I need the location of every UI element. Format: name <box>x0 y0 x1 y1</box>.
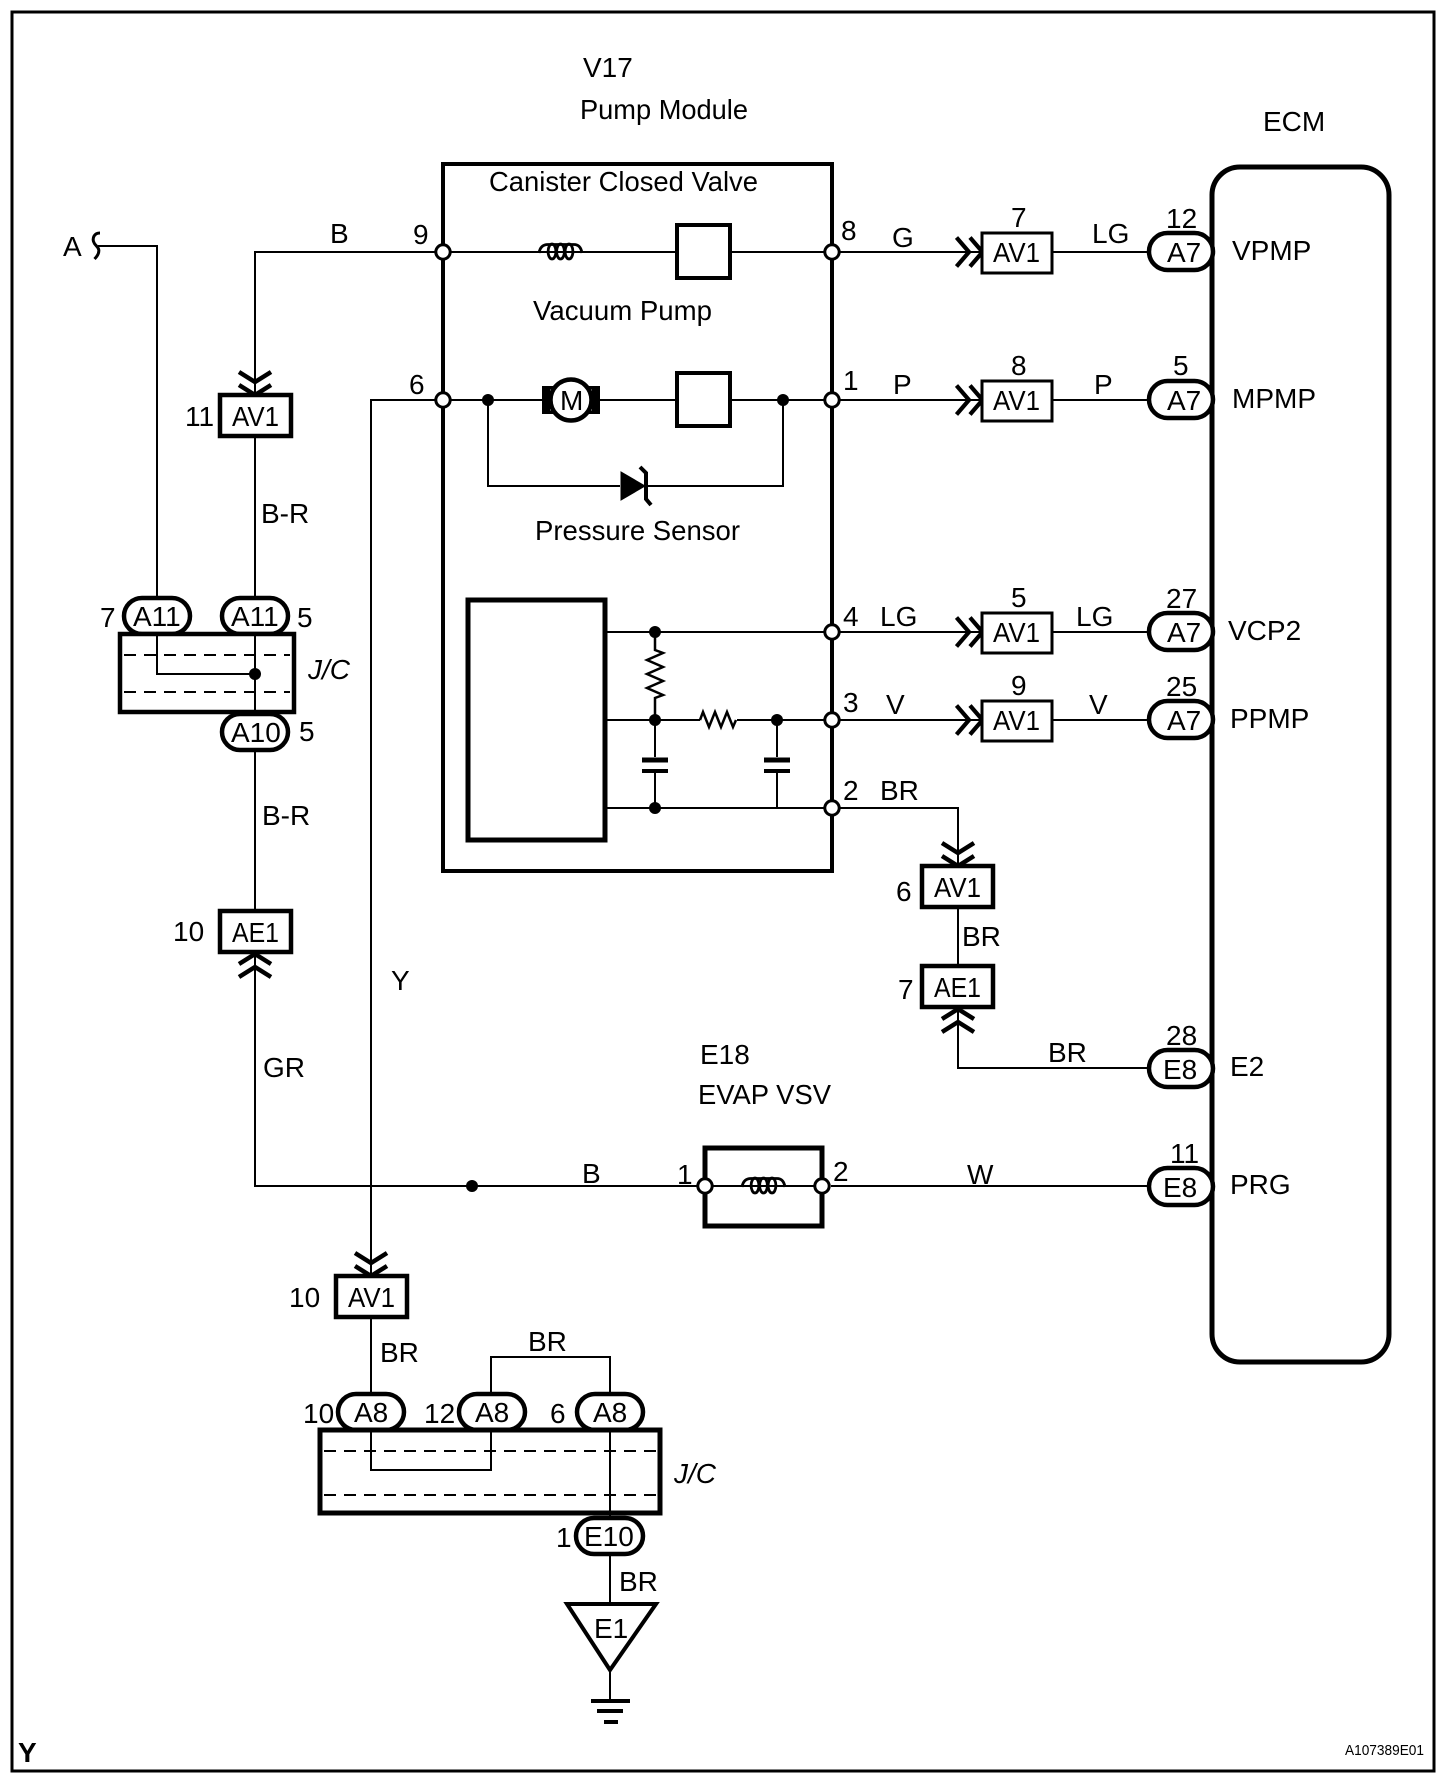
svg-text:1: 1 <box>843 365 859 396</box>
svg-text:ECM: ECM <box>1263 106 1325 137</box>
svg-text:E2: E2 <box>1230 1051 1264 1082</box>
wire W from VSV to ECM PRG <box>831 1185 1149 1187</box>
resistor vertical in sensor <box>647 632 663 720</box>
svg-text:EVAP VSV: EVAP VSV <box>698 1079 831 1110</box>
svg-text:10: 10 <box>173 916 204 947</box>
svg-text:2: 2 <box>833 1156 849 1187</box>
svg-text:A7: A7 <box>1167 385 1201 416</box>
wire inside J/C from A11 7 <box>157 634 255 674</box>
svg-text:5: 5 <box>1173 350 1189 381</box>
svg-text:P: P <box>1094 369 1113 400</box>
connector A8 pin 10 <box>338 1394 404 1430</box>
junction dot row3 right <box>771 714 783 726</box>
diode bypass wire <box>488 400 620 486</box>
svg-text:1: 1 <box>677 1159 693 1190</box>
connector AE1 pin 10 <box>220 911 291 952</box>
svg-text:AV1: AV1 <box>348 1282 395 1313</box>
connector AV1 pin 8 <box>982 381 1052 421</box>
wire through J/C from A11 5 to A10 <box>254 634 256 712</box>
svg-text:27: 27 <box>1166 583 1197 614</box>
svg-text:A11: A11 <box>133 601 181 632</box>
svg-text:Pump Module: Pump Module <box>580 94 748 125</box>
chevrons into AV1 pin 10 <box>355 1253 387 1276</box>
svg-text:AV1: AV1 <box>993 705 1040 736</box>
connector E10 pin 1 <box>576 1518 643 1554</box>
svg-text:5: 5 <box>297 602 313 633</box>
chevrons out of AE1 pin 10 <box>239 954 271 977</box>
wire Y from node 6 down to AV1 pin 10 <box>371 400 443 1277</box>
svg-text:W: W <box>967 1159 994 1190</box>
connector E8 pin 11 <box>1149 1168 1213 1205</box>
svg-text:V17: V17 <box>583 52 633 83</box>
junction block J/C left <box>120 634 294 712</box>
svg-text:25: 25 <box>1166 671 1197 702</box>
wire BR from AV1 10 to A8 pin 10 <box>370 1315 372 1395</box>
junction dot row2 <box>649 802 661 814</box>
node 2 circle VSV <box>815 1179 829 1193</box>
connector A7 pin 5 <box>1149 381 1213 418</box>
svg-text:6: 6 <box>409 369 425 400</box>
sensor output wire row 4 <box>605 631 832 633</box>
coil of EVAP VSV <box>742 1178 785 1193</box>
svg-text:P: P <box>893 369 912 400</box>
svg-text:12: 12 <box>1166 203 1197 234</box>
connector A7 pin 25 <box>1149 701 1213 738</box>
svg-text:A8: A8 <box>475 1397 509 1428</box>
svg-text:BR: BR <box>619 1566 658 1597</box>
sensor ground wire row 2 <box>605 807 832 809</box>
junction dot inside J/C <box>249 668 261 680</box>
connector AV1 pin 5 <box>982 613 1052 653</box>
connector AV1 pin 11 <box>220 395 291 436</box>
node 2 circle <box>825 801 839 815</box>
chevrons into AV1 pin 9 <box>957 706 983 735</box>
node 4 circle <box>825 625 839 639</box>
motor M of vacuum pump <box>542 386 554 414</box>
svg-text:B-R: B-R <box>261 498 309 529</box>
svg-text:Y: Y <box>18 1737 37 1768</box>
wire LG row 4 to AV1 5 <box>832 631 986 633</box>
svg-text:V: V <box>886 689 905 720</box>
svg-text:5: 5 <box>1011 582 1027 613</box>
junction dot left of motor <box>482 394 494 406</box>
svg-text:7: 7 <box>1011 202 1027 233</box>
connector A10 pin 5 <box>222 714 288 750</box>
resistor horizontal in sensor <box>700 712 736 727</box>
wire P row 1 to AV1 8 <box>832 399 986 401</box>
junction dot right of pump square <box>777 394 789 406</box>
svg-text:10: 10 <box>303 1398 334 1429</box>
svg-text:12: 12 <box>424 1398 455 1429</box>
svg-text:A107389E01: A107389E01 <box>1345 1742 1424 1759</box>
svg-text:6: 6 <box>896 876 912 907</box>
svg-text:J/C: J/C <box>307 654 351 685</box>
svg-text:BR: BR <box>880 775 919 806</box>
svg-text:VCP2: VCP2 <box>1228 615 1301 646</box>
wire V row 3 to AV1 9 <box>832 719 986 721</box>
connector A11 pin 7 <box>124 598 190 634</box>
wire canister closed valve row <box>443 251 677 253</box>
svg-text:A8: A8 <box>354 1397 388 1428</box>
svg-text:8: 8 <box>841 215 857 246</box>
chevrons into AV1 pin 8 <box>957 386 983 415</box>
svg-text:11: 11 <box>185 401 214 432</box>
chevrons into AV1 pin 7 <box>957 238 983 267</box>
svg-text:AV1: AV1 <box>232 401 279 432</box>
diode (zener) <box>621 472 645 500</box>
svg-text:LG: LG <box>880 601 917 632</box>
svg-text:E18: E18 <box>700 1039 750 1070</box>
valve body square <box>677 225 730 278</box>
wire from A to junction block A11 pin 7 <box>98 246 157 599</box>
wire BR from AV1 6 to AE1 7 <box>957 907 959 966</box>
svg-text:1: 1 <box>556 1522 572 1553</box>
svg-text:Canister Closed Valve: Canister Closed Valve <box>489 166 758 197</box>
svg-text:M: M <box>560 385 583 416</box>
connector A8 pin 12 <box>459 1394 525 1430</box>
junction block J/C bottom <box>320 1430 660 1513</box>
coil of canister closed valve <box>539 244 582 259</box>
svg-text:AV1: AV1 <box>993 617 1040 648</box>
svg-text:5: 5 <box>299 716 315 747</box>
svg-text:V: V <box>1089 689 1108 720</box>
capacitor 1 <box>654 720 656 757</box>
ground triangle E1 <box>567 1604 656 1670</box>
svg-text:AE1: AE1 <box>232 917 279 948</box>
chevrons out of AE1 pin 7 <box>942 1009 974 1032</box>
ground symbol <box>591 1699 630 1703</box>
ECM box <box>1212 167 1389 1362</box>
svg-text:E10: E10 <box>584 1521 634 1552</box>
svg-text:A10: A10 <box>231 717 281 748</box>
wire BR from E10 to E1 <box>609 1554 611 1604</box>
svg-text:7: 7 <box>100 602 116 633</box>
svg-text:7: 7 <box>898 974 914 1005</box>
svg-text:J/C: J/C <box>673 1458 717 1489</box>
svg-text:PPMP: PPMP <box>1230 703 1309 734</box>
node 1 circle <box>825 393 839 407</box>
svg-text:VPMP: VPMP <box>1232 235 1311 266</box>
svg-text:Vacuum Pump: Vacuum Pump <box>533 295 712 326</box>
svg-text:G: G <box>892 222 914 253</box>
svg-text:AV1: AV1 <box>993 385 1040 416</box>
node 6 circle <box>436 393 450 407</box>
chevrons into AV1 pin 11 <box>239 372 271 395</box>
wire GR from AE1 down and right to EVAP VSV pin 1 <box>255 950 705 1186</box>
svg-text:A7: A7 <box>1167 237 1201 268</box>
svg-text:B: B <box>582 1158 601 1189</box>
svg-text:A: A <box>63 231 82 262</box>
wire BR bridge between A8 12 and A8 6 <box>491 1357 610 1394</box>
svg-text:A11: A11 <box>231 601 279 632</box>
connector AV1 pin 7 <box>982 233 1052 273</box>
svg-text:E1: E1 <box>594 1613 628 1644</box>
svg-text:E8: E8 <box>1163 1054 1197 1085</box>
wire BR from AE1 7 to ECM E2 <box>958 1007 1149 1068</box>
svg-text:MPMP: MPMP <box>1232 383 1316 414</box>
svg-text:3: 3 <box>843 687 859 718</box>
svg-text:BR: BR <box>1048 1037 1087 1068</box>
connector A7 pin 12 <box>1149 233 1213 270</box>
svg-text:Y: Y <box>391 965 410 996</box>
connector AE1 pin 7 <box>922 966 993 1007</box>
connector AV1 pin 6 <box>922 866 993 907</box>
sensor output wire row 3 <box>605 719 700 721</box>
EVAP VSV box <box>705 1148 822 1226</box>
connector A11 pin 5 <box>222 598 288 634</box>
splice dot on B wire <box>466 1180 478 1192</box>
svg-text:Pressure Sensor: Pressure Sensor <box>535 515 740 546</box>
connector A8 pin 6 <box>577 1394 643 1430</box>
wire B from node 9 to shield point <box>255 252 443 396</box>
svg-text:LG: LG <box>1092 218 1129 249</box>
pump module box V17 <box>443 164 832 871</box>
svg-text:6: 6 <box>550 1398 566 1429</box>
pressure sensor box <box>468 600 605 840</box>
wire B-R from A10 to AE1 pin 10 <box>254 750 256 912</box>
connector A7 pin 27 <box>1149 613 1213 650</box>
svg-text:BR: BR <box>380 1337 419 1368</box>
svg-text:10: 10 <box>289 1282 320 1313</box>
node 1 circle VSV <box>698 1179 712 1193</box>
svg-text:LG: LG <box>1076 601 1113 632</box>
wire BR row 2 <box>832 808 958 869</box>
svg-text:11: 11 <box>1170 1138 1199 1169</box>
junction dot row4 <box>649 626 661 638</box>
wire from E1 to ground <box>609 1670 611 1701</box>
svg-text:A8: A8 <box>593 1397 627 1428</box>
connector E8 pin 28 <box>1149 1050 1213 1087</box>
svg-text:AV1: AV1 <box>993 237 1040 268</box>
svg-text:8: 8 <box>1011 350 1027 381</box>
svg-text:B: B <box>330 218 349 249</box>
wire inside J/C bottom <box>371 1430 491 1470</box>
svg-text:A7: A7 <box>1167 617 1201 648</box>
svg-text:BR: BR <box>528 1326 567 1357</box>
svg-text:B-R: B-R <box>262 800 310 831</box>
wire G row 8 to AV1 7 <box>832 251 986 253</box>
svg-text:4: 4 <box>843 601 859 632</box>
junction dot row3 left <box>649 714 661 726</box>
svg-text:E8: E8 <box>1163 1172 1197 1203</box>
connector AV1 pin 9 <box>982 701 1052 741</box>
svg-text:BR: BR <box>962 921 1001 952</box>
wire inside VSV <box>705 1185 822 1187</box>
node 8 circle <box>825 245 839 259</box>
wire from A8 6 through J/C to E10 <box>609 1430 611 1518</box>
svg-text:2: 2 <box>843 775 859 806</box>
chevrons into AV1 pin 5 <box>957 618 983 647</box>
svg-text:GR: GR <box>263 1052 305 1083</box>
chevrons into AV1 pin 6 <box>942 843 974 866</box>
svg-text:AE1: AE1 <box>934 972 981 1003</box>
svg-text:PRG: PRG <box>1230 1169 1291 1200</box>
pump body square <box>677 373 730 426</box>
wire vacuum pump row <box>443 399 677 401</box>
svg-text:9: 9 <box>1011 670 1027 701</box>
node 9 circle <box>436 245 450 259</box>
wire continuation squiggle at A <box>93 233 100 259</box>
connector AV1 pin 10 <box>336 1276 407 1317</box>
wire B-R from AV1 11 to A11 pin 5 <box>254 434 256 599</box>
capacitor 2 <box>776 720 778 757</box>
node 3 circle <box>825 713 839 727</box>
svg-text:9: 9 <box>413 219 429 250</box>
svg-text:A7: A7 <box>1167 705 1201 736</box>
svg-text:28: 28 <box>1166 1020 1197 1051</box>
svg-text:AV1: AV1 <box>934 872 981 903</box>
